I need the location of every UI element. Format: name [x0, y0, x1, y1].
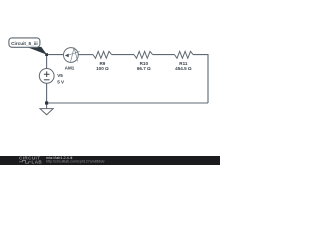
wire: R10 to R11 [153, 54, 175, 56]
svg-text:454.5 Ω: 454.5 Ω [175, 66, 192, 71]
wire stub to ground [46, 103, 48, 108]
svg-text:AM1: AM1 [65, 65, 75, 70]
resistor R9 [93, 51, 112, 71]
ammeter AM1 [64, 48, 80, 71]
watermark bar [0, 156, 220, 165]
node junction dot top [45, 53, 48, 56]
node junction dot bottom [45, 101, 48, 104]
node label flag Circuit_5_iii [9, 38, 47, 55]
CircuitLab logo [19, 156, 42, 165]
wire top: node to ammeter [47, 54, 64, 56]
svg-text:5 V: 5 V [57, 80, 65, 85]
svg-text:V5: V5 [57, 73, 63, 78]
svg-text:66.7 Ω: 66.7 Ω [137, 66, 151, 71]
wire left vertical lower [46, 83, 48, 103]
svg-text:http://circuitlab.com/cph127am: http://circuitlab.com/cph127am86bdv [46, 160, 105, 164]
wire: R11 to top-right corner and down [193, 55, 208, 103]
svg-text:Circuit_5_iii: Circuit_5_iii [11, 41, 38, 46]
wire: ammeter to R9 [78, 54, 93, 56]
voltage source V5 [39, 69, 65, 85]
wire bottom [47, 102, 208, 104]
resistor R11 [175, 51, 194, 71]
svg-text:100 Ω: 100 Ω [96, 66, 109, 71]
wire left vertical upper [46, 55, 48, 69]
svg-text:LAB: LAB [32, 160, 43, 165]
ground [40, 109, 53, 115]
wire: R9 to R10 [112, 54, 134, 56]
resistor R10 [134, 51, 153, 71]
